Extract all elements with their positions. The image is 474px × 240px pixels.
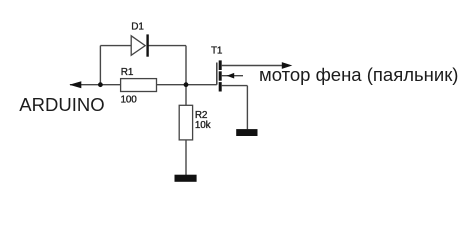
svg-text:R1: R1 (121, 67, 134, 78)
wire diode branch left vertical (99, 46, 101, 85)
wire drain horizontal (222, 65, 284, 67)
svg-text:D1: D1 (131, 22, 144, 33)
node left junction dot (98, 82, 103, 87)
wire main horizontal from arrow to gate (70, 84, 217, 86)
ground under R2 (175, 175, 197, 182)
ground under transistor source (236, 129, 257, 136)
transistor channel segment source (219, 82, 222, 91)
svg-text:10k: 10k (195, 120, 212, 131)
wire body arrow horizontal (222, 75, 243, 77)
transistor T1 gate bar (216, 63, 218, 85)
svg-text:100: 100 (121, 95, 138, 106)
svg-text:мотор фена (паяльник): мотор фена (паяльник) (259, 64, 458, 85)
resistor R1 (121, 79, 157, 92)
diode D1 cathode bar (146, 34, 148, 56)
transistor body arrow (left pointing) (227, 73, 235, 79)
wire R2 bottom to ground (185, 140, 187, 175)
node right junction dot (184, 82, 189, 87)
wire junction to R2 top (185, 85, 187, 106)
svg-text:ARDUINO: ARDUINO (19, 94, 104, 115)
arrow to motor (right) (282, 62, 293, 69)
arrow to ARDUINO (left) (69, 81, 81, 88)
transistor channel segment body (219, 71, 222, 80)
wire source vertical to ground (246, 86, 248, 130)
wire diode branch right vertical (185, 46, 187, 85)
wire diode branch top left horizontal (100, 45, 131, 47)
transistor channel segment drain (219, 60, 222, 70)
wire source horizontal (222, 85, 248, 87)
diode D1 triangle (131, 36, 145, 56)
svg-text:T1: T1 (211, 46, 223, 57)
resistor R2 (179, 105, 192, 140)
wire diode branch top right horizontal (148, 45, 186, 47)
